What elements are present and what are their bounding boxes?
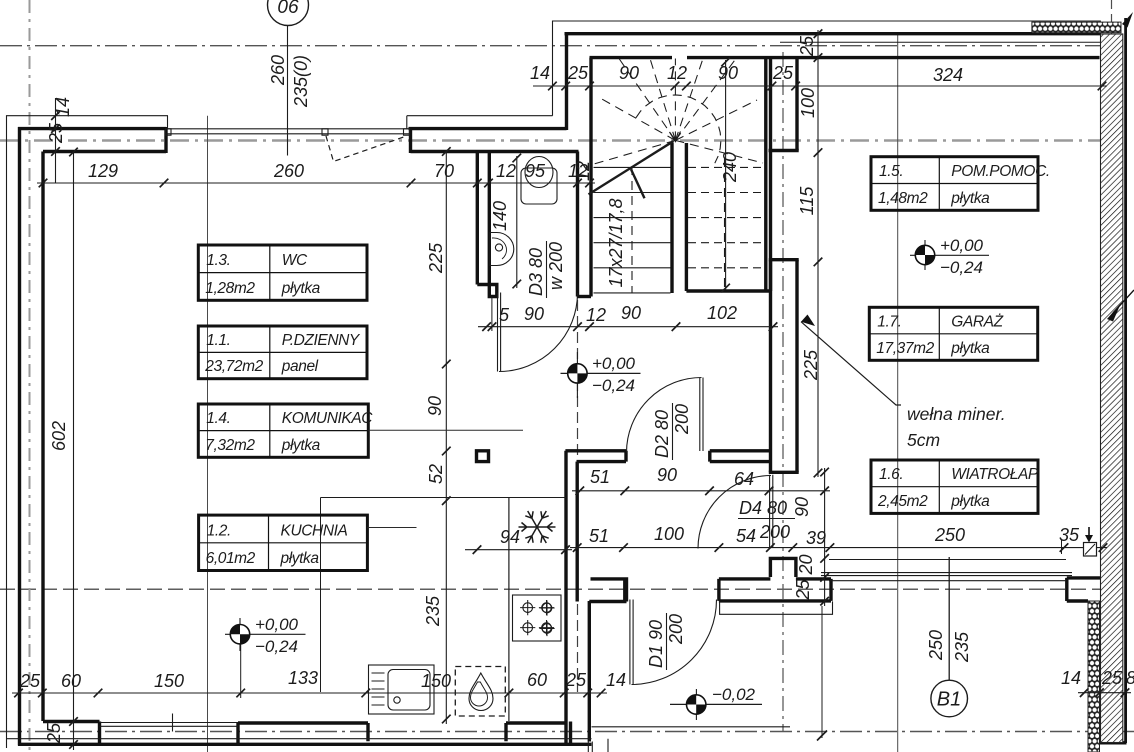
- dim line row A y=86: [533, 85, 1107, 87]
- wall garage-west pier x=797: [795, 260, 798, 473]
- axis horizontal y=589.3: [0, 588, 1100, 590]
- door label D3 80 / w 200: [526, 241, 566, 298]
- svg-text:6,01m2: 6,01m2: [206, 550, 256, 567]
- ticks on dim row y=549.7: [473, 545, 570, 554]
- toilet WC: [521, 168, 557, 204]
- wall left inner face x=43: [41, 152, 44, 722]
- grid line x=897.7: [897, 34, 899, 752]
- svg-text:90: 90: [621, 303, 641, 323]
- svg-text:39: 39: [806, 528, 826, 548]
- svg-text:70: 70: [434, 161, 454, 181]
- svg-text:1.6.: 1.6.: [879, 466, 903, 483]
- kitchen sink: [369, 665, 435, 714]
- door label D2 80 / 200: [652, 403, 692, 460]
- kitchen zone boundary: [321, 498, 567, 693]
- boundary wall hatched: [1032, 12, 1134, 752]
- svg-text:1.4.: 1.4.: [206, 410, 230, 427]
- window A mullion square x=168: [166, 129, 172, 135]
- dim ext line x=491.9: [491, 297, 493, 332]
- dim text rotated 52: [426, 464, 446, 484]
- dim text rotated 225: [801, 349, 821, 381]
- axis bubble 06: [268, 0, 309, 26]
- wall garage-west pier bottom closure: [769, 471, 799, 474]
- wall step vertical x=566.5: [565, 32, 568, 130]
- window A mullion square x=406.5: [404, 129, 410, 135]
- dim line vertical x=73.5 (602): [73, 152, 75, 750]
- svg-text:25: 25: [565, 670, 587, 690]
- wall kitchen east face x=577.2: [576, 462, 579, 602]
- stove: [513, 595, 562, 641]
- svg-text:−0,24: −0,24: [592, 376, 635, 395]
- svg-text:1.2.: 1.2.: [207, 522, 231, 539]
- ticks on dim row y=86: [548, 82, 1106, 91]
- svg-text:25: 25: [797, 35, 817, 57]
- door D4 arc: [698, 476, 771, 549]
- axis vertical x=783: [782, 52, 784, 731]
- dim text rotated 235: [952, 631, 972, 663]
- winder walking arc dashed: [636, 95, 721, 163]
- wall stair west face x=591: [589, 58, 592, 297]
- svg-text:20: 20: [796, 554, 816, 575]
- wall top-right outer face y=33.7: [565, 32, 1102, 35]
- window A mullion square x=325: [322, 129, 328, 135]
- svg-text:25: 25: [793, 579, 813, 601]
- ticks on dim row y=490.8: [576, 487, 829, 496]
- axis vertical kitchen wall x=577.5 dashed: [577, 300, 579, 692]
- svg-text:602: 602: [49, 421, 69, 451]
- svg-text:2,45m2: 2,45m2: [877, 493, 928, 510]
- window A glazing lines: [166, 129, 410, 134]
- SECTION:FIXTURES: [369, 157, 773, 717]
- svg-text:+0,00: +0,00: [592, 354, 636, 373]
- svg-text:23,72m2: 23,72m2: [204, 358, 263, 375]
- svg-text:115: 115: [797, 186, 817, 216]
- door D1 arc: [632, 600, 717, 685]
- wall stair jamb closure y=296.5: [578, 295, 592, 298]
- fridge snowflake: [519, 511, 556, 543]
- bottom wall inner face segA y=721.5: [43, 722, 100, 745]
- svg-text:14: 14: [53, 97, 73, 117]
- room table KUCHNIA: [199, 515, 368, 570]
- dim text rotated 140: [490, 201, 510, 231]
- svg-text:51: 51: [589, 526, 609, 546]
- svg-text:12: 12: [573, 161, 593, 181]
- svg-text:90: 90: [792, 497, 812, 517]
- leader line KOMUNIKAC: [368, 429, 523, 431]
- svg-text:200: 200: [672, 404, 692, 435]
- dim text rotated 250: [926, 630, 946, 661]
- dim text rotated 12: [573, 161, 593, 181]
- kitchen wall lower extra face: [569, 722, 572, 745]
- terrace door sill lines: [100, 723, 239, 727]
- door D3 arc: [499, 293, 578, 372]
- svg-text:100: 100: [798, 88, 818, 118]
- svg-text:90: 90: [425, 396, 445, 416]
- boundary arrow mid right: [1107, 303, 1121, 322]
- wall stair east face x=765.8: [764, 58, 767, 291]
- svg-text:12: 12: [667, 63, 687, 83]
- wall WC west face x=489.3: [488, 152, 491, 285]
- walking line arrow at center: [670, 132, 681, 142]
- dim line row G bottom y=693: [12, 692, 607, 694]
- landing slab edge y=726.8: [592, 726, 791, 728]
- svg-text:D1 90: D1 90: [646, 620, 666, 668]
- svg-text:235(0): 235(0): [291, 55, 311, 108]
- door D2 leaf: [700, 378, 703, 452]
- dim text rotated 25: [793, 579, 813, 601]
- dim text rotated 235(0): [291, 55, 311, 108]
- svg-text:1.5.: 1.5.: [879, 163, 903, 180]
- walking line left flight dashed: [631, 166, 633, 293]
- dim text rotated 90: [792, 497, 812, 517]
- wall stair east face2 x=770.5: [769, 58, 772, 291]
- dim line vertical x=824.6 (90,20,25): [824, 468, 826, 606]
- svg-text:25: 25: [44, 722, 64, 744]
- leader line KUCHNIA: [367, 527, 416, 529]
- svg-text:+0,00: +0,00: [940, 236, 984, 255]
- wall kitchen east face x=566: [564, 451, 567, 744]
- svg-text:B1: B1: [937, 689, 961, 711]
- dim line vertical x=446.3: [445, 151, 447, 724]
- washbasin WC: [490, 233, 514, 266]
- wall komunikacja south segment east y=450.5..462: [710, 451, 770, 462]
- left flight treads: [594, 167, 671, 293]
- dim text rotated 260: [268, 55, 288, 86]
- terrace door mullion x=172.5: [172, 714, 174, 732]
- room table WC: [198, 245, 367, 300]
- kitchen counter edge x=508.9: [508, 498, 510, 722]
- dim ext line x=1059.5: [1061, 540, 1063, 554]
- svg-text:25: 25: [46, 122, 66, 144]
- dim text rotated 20: [796, 554, 816, 575]
- ticks on dim row y=326.7: [482, 322, 777, 331]
- thin line y=42.3 garage top: [780, 41, 1100, 43]
- ticks on dim col x=516.8: [513, 154, 522, 289]
- stair break line diagonal: [589, 141, 674, 194]
- bottom wall inner face segB y=723: [238, 723, 368, 744]
- bottom continuous sill line y=738.7: [7, 738, 592, 740]
- wall left outer face x=19.5: [18, 127, 21, 746]
- walking line right flight dashed: [724, 158, 726, 287]
- ticks on dim col x=818: [814, 29, 823, 477]
- svg-text:60: 60: [61, 671, 81, 691]
- dim text rotated 115: [797, 186, 817, 216]
- svg-text:KOMUNIKAC: KOMUNIKAC: [282, 410, 373, 427]
- svg-text:17,37m2: 17,37m2: [876, 340, 934, 357]
- svg-text:150: 150: [154, 671, 184, 691]
- garage door sill lines: [821, 560, 1072, 581]
- wall WC door jamb closure: [477, 285, 497, 297]
- svg-text:25: 25: [772, 63, 794, 83]
- svg-text:POM.POMOC.: POM.POMOC.: [951, 163, 1049, 180]
- wall B inner face y=151.5: [411, 150, 579, 153]
- wall wiatrolap SW block1: [770, 558, 796, 577]
- svg-text:06: 06: [277, 0, 299, 18]
- ticks on dim col x=55.5: [51, 111, 60, 155]
- svg-text:140: 140: [490, 201, 510, 231]
- thin outline insulation top-left: [7, 116, 169, 748]
- svg-text:94: 94: [500, 527, 520, 547]
- svg-text:225: 225: [801, 349, 821, 381]
- dim line vertical x=725.6 (240): [725, 60, 727, 290]
- svg-text:200: 200: [759, 522, 790, 542]
- svg-text:płytka: płytka: [281, 280, 321, 297]
- svg-text:17x27/17,8: 17x27/17,8: [606, 198, 626, 287]
- dim line row F kitchen y=549.7: [465, 549, 572, 551]
- svg-text:260: 260: [273, 161, 304, 181]
- window A opening dashed V: [326, 136, 407, 162]
- svg-text:90: 90: [524, 304, 544, 324]
- wall D1 west jamb x=589.3: [588, 601, 591, 742]
- wall A outer face y=128.6: [18, 127, 166, 130]
- dim text rotated 25: [44, 722, 64, 744]
- svg-text:100: 100: [654, 524, 684, 544]
- door D3 leaf: [498, 293, 501, 372]
- wall garage-west pier x=770.5: [769, 260, 772, 473]
- wiatrolap entry step outline: [720, 601, 833, 614]
- svg-text:14: 14: [1061, 668, 1081, 688]
- dim text rotated 14: [53, 97, 73, 117]
- svg-text:1.1.: 1.1.: [206, 332, 230, 349]
- dim line vertical left x=55.5: [55, 98, 57, 183]
- wall top-right inner face y=57.6: [590, 56, 1100, 59]
- svg-text:14: 14: [606, 670, 626, 690]
- svg-text:płytka: płytka: [280, 550, 320, 567]
- svg-text:panel: panel: [281, 358, 319, 375]
- dim line bottom-right y=692.7: [1078, 692, 1131, 694]
- thin insulation jamb x=167.5: [167, 116, 169, 129]
- ticks on dim row y=183: [39, 179, 594, 188]
- ticks on dim row y=547.6: [573, 543, 1107, 552]
- wall B outer face y=128.6: [409, 127, 567, 130]
- welna miner leader arrow: [801, 322, 901, 405]
- svg-text:324: 324: [933, 65, 963, 85]
- svg-text:225: 225: [426, 242, 446, 274]
- svg-text:WC: WC: [282, 252, 308, 269]
- svg-text:1,48m2: 1,48m2: [878, 190, 928, 207]
- door label D1 90 / 200: [646, 613, 686, 670]
- dim text rotated 240: [720, 152, 740, 183]
- wall stub living x=477..489: [477, 451, 489, 462]
- room table WIATROŁAP: [871, 460, 1038, 513]
- svg-text:260: 260: [268, 55, 288, 86]
- svg-text:1,28m2: 1,28m2: [205, 280, 255, 297]
- wiatrolap SE corner block: [1067, 578, 1100, 601]
- landing jamb lines below D1 wall: [588, 739, 608, 752]
- svg-text:−0,02: −0,02: [712, 685, 756, 704]
- room table GARAŻ: [869, 307, 1037, 360]
- svg-text:51: 51: [590, 467, 610, 487]
- svg-text:8: 8: [1126, 668, 1134, 688]
- svg-text:P.DZIENNY: P.DZIENNY: [282, 332, 361, 349]
- svg-text:25: 25: [567, 63, 589, 83]
- dim line row B y=183: [37, 182, 595, 184]
- dim text rotated 225: [426, 242, 446, 274]
- wall WC west face x=477.3: [476, 152, 479, 285]
- winder dashed rays: [594, 59, 763, 165]
- boundary arrow top right: [1122, 12, 1133, 28]
- svg-text:235: 235: [423, 595, 443, 627]
- svg-text:WIATROŁAP: WIATROŁAP: [951, 466, 1039, 483]
- svg-text:64: 64: [734, 469, 754, 489]
- right flight dashed treads: [688, 167, 764, 267]
- mineral wool strip top (pebble): [1032, 22, 1121, 33]
- svg-text:1.3.: 1.3.: [206, 252, 230, 269]
- wall stair spine east x=686.4: [685, 143, 688, 291]
- svg-text:D4 80: D4 80: [739, 498, 787, 518]
- svg-text:płytka: płytka: [281, 437, 321, 454]
- thin insulation step x=552.5: [553, 21, 1101, 116]
- svg-text:1.7.: 1.7.: [877, 313, 901, 330]
- svg-text:35: 35: [1059, 525, 1080, 545]
- svg-text:−0,24: −0,24: [255, 637, 298, 656]
- svg-text:7,32m2: 7,32m2: [205, 437, 255, 454]
- svg-text:240: 240: [720, 152, 740, 183]
- dishwasher dashed box: [455, 667, 505, 717]
- svg-text:12: 12: [586, 305, 606, 325]
- svg-text:płytka: płytka: [950, 190, 990, 207]
- svg-text:250: 250: [926, 630, 946, 661]
- mineral wool strip bottom right (pebble): [1088, 601, 1100, 752]
- axis horizontal A y=140.5 (heavy grey): [0, 139, 1100, 142]
- wall under right flight y=291: [686, 289, 770, 292]
- svg-text:52: 52: [426, 464, 446, 484]
- level marker living +0,00/-0,24: [225, 633, 306, 635]
- grid line x=207.5: [207, 116, 209, 752]
- boundary wall bottom closure: [1100, 741, 1127, 744]
- wall B start jamb x=410.5: [409, 127, 412, 153]
- svg-text:95: 95: [525, 161, 546, 181]
- rain downpipe symbol: [1084, 543, 1097, 557]
- axis horizontal bottom y=731.5: [0, 731, 1134, 733]
- ticks on dim col x=446.3: [442, 147, 451, 723]
- svg-text:54: 54: [736, 526, 756, 546]
- svg-text:5cm: 5cm: [907, 430, 940, 450]
- hatched existing wall band right: [1101, 34, 1123, 743]
- dim line row D y=490.8: [572, 490, 830, 492]
- door D2 arc: [627, 378, 702, 453]
- svg-text:14: 14: [530, 63, 550, 83]
- water drop icon: [469, 673, 493, 711]
- dim text rotated 602: [49, 421, 69, 451]
- room table POM.POMOC.: [871, 157, 1038, 211]
- ticks on dim col x=824.6: [820, 468, 829, 606]
- svg-text:w 200: w 200: [546, 242, 566, 290]
- wall garage-west pier top closure: [769, 258, 799, 261]
- dim text rotated 100: [798, 88, 818, 118]
- svg-text:60: 60: [527, 670, 547, 690]
- level marker garage +0,00/-0,24: [910, 254, 989, 256]
- svg-text:płytka: płytka: [950, 493, 990, 510]
- bottom wall outer face y=744.3: [18, 743, 592, 746]
- axis horizontal top y=45.7: [0, 45, 1102, 47]
- heavy boundary line x=1125.6: [1124, 18, 1127, 743]
- ticks on dim row y=693: [14, 689, 605, 698]
- ticks on dim row y=692.7: [1080, 688, 1129, 697]
- dim text rotated 235: [423, 595, 443, 627]
- wall komunikacja south segment west y=450.5..462: [565, 451, 626, 462]
- dim text rotated 25: [46, 122, 66, 144]
- level marker hall +0,00/-0,24: [561, 372, 641, 374]
- dim text rotated 17x27/17,8: [606, 198, 626, 287]
- dim line vertical x=516.8 (140): [516, 156, 518, 288]
- svg-text:150: 150: [421, 671, 451, 691]
- svg-text:90: 90: [619, 63, 639, 83]
- svg-text:235: 235: [952, 631, 972, 663]
- svg-text:129: 129: [88, 161, 118, 181]
- svg-text:90: 90: [718, 63, 738, 83]
- thin insulation line top-mid y=115.7: [407, 116, 553, 130]
- svg-text:KUCHNIA: KUCHNIA: [281, 522, 348, 539]
- room table KOMUNIKAC: [198, 404, 368, 457]
- door D1 leaf: [630, 600, 633, 685]
- svg-text:+0,00: +0,00: [255, 615, 299, 634]
- svg-text:90: 90: [657, 465, 677, 485]
- svg-text:12: 12: [496, 161, 516, 181]
- beam mark B1: [948, 557, 950, 680]
- dim text rotated 25: [797, 35, 817, 57]
- wall wiatrolap SW band2: [719, 579, 831, 601]
- stair break zigzag stub: [631, 169, 645, 198]
- svg-text:płytka: płytka: [950, 340, 990, 357]
- room table P.DZIENNY: [198, 326, 367, 379]
- ticks on dim col x=725.6: [721, 58, 730, 293]
- svg-text:D2 80: D2 80: [652, 410, 672, 458]
- svg-text:250: 250: [934, 525, 965, 545]
- dim line row E y=547.6: [570, 547, 1107, 549]
- wall WC east face x=577.5: [576, 152, 579, 297]
- dim ext line x=822: [821, 606, 823, 738]
- door D4 leaf: [770, 475, 773, 548]
- level marker entrance -0,02: [670, 703, 762, 705]
- svg-text:GARAŻ: GARAŻ: [951, 313, 1003, 330]
- wall A end jamb x=166: [164, 127, 167, 153]
- wall pier east face x=797 top: [795, 58, 798, 151]
- dim text rotated 90: [425, 396, 445, 416]
- svg-text:−0,24: −0,24: [940, 258, 983, 277]
- dim line row C y=326.7: [478, 326, 778, 328]
- svg-text:25: 25: [19, 671, 41, 691]
- svg-text:133: 133: [288, 668, 318, 688]
- ticks on dim col x=73.5: [69, 148, 78, 749]
- svg-text:D3 80: D3 80: [526, 248, 546, 296]
- svg-text:102: 102: [707, 303, 737, 323]
- axis vertical left x=29.5 (grey dashed): [29, 0, 31, 752]
- wall A inner face y=151.5: [43, 150, 166, 153]
- dim ext line x=240.7: [240, 640, 242, 698]
- wall pier closure y=150.5: [769, 149, 799, 152]
- wall stair spine west x=672: [670, 143, 673, 293]
- wall block above D1: [589, 577, 626, 602]
- svg-text:wełna miner.: wełna miner.: [907, 404, 1006, 424]
- svg-text:200: 200: [666, 614, 686, 645]
- svg-text:25: 25: [1101, 668, 1123, 688]
- axis vertical in boundary wall x=1111.5: [1111, 0, 1113, 34]
- dim line vertical x=818 (25,100,115,225): [817, 30, 819, 477]
- bottom wall inner face segC y=723: [506, 723, 566, 741]
